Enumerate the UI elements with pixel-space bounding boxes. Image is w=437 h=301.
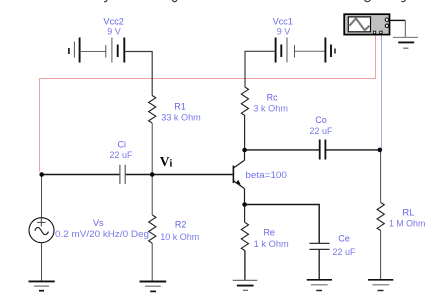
svg-text:22 uF: 22 uF [332,247,356,257]
ground (Ce) [307,280,332,291]
svg-text:RL: RL [402,208,414,218]
wire emitter row (emitter node - Ce) [245,205,320,244]
svg-text:beta=100: beta=100 [245,170,287,180]
resistor R2 10 kOhm [149,215,200,243]
resistor RL 1 MOhm [377,203,425,231]
svg-text:Ci: Ci [118,140,127,150]
wire Ce to ground [318,249,320,279]
capacitor Co 22 uF [309,115,333,160]
svg-text:Co: Co [315,115,327,125]
wire Rc to collector node [244,116,246,151]
svg-text:Ce: Ce [338,233,350,243]
cropped title text remnants (descenders at top edge) [104,0,406,2]
node dot: input node at Vs [39,172,44,177]
ground (R2) [140,282,167,292]
oscilloscope XSC1 [344,14,389,34]
wire input row (Vs node - Ci - node Vi - Q1 base) [42,174,234,176]
svg-text:22 uF: 22 uF [109,150,133,160]
node dot: output node [378,148,383,153]
svg-text:9 V: 9 V [107,27,121,37]
capacitor Ce 22 uF [310,233,357,257]
wire Re to ground [244,251,246,281]
svg-text:22 uF: 22 uF [309,126,333,136]
wire scope to ground [390,20,406,37]
wire R1 to node Vi [151,123,153,175]
svg-text:Rc: Rc [267,92,278,102]
svg-text:3 k Ohm: 3 k Ohm [253,103,288,113]
svg-text:10 k Ohm: 10 k Ohm [160,232,199,242]
node dot: emitter node [242,202,247,207]
wire output node to RL [380,150,382,203]
svg-text:Vcc1: Vcc1 [273,16,293,26]
node dot: node Vi [150,172,155,177]
svg-text:1 k Ohm: 1 k Ohm [254,239,289,249]
resistor R1 33 kOhm [149,96,201,124]
node dot: collector node [242,148,247,153]
resistor Re 1 kOhm [241,223,288,251]
ground (RL) [368,280,393,291]
capacitor Ci 22 uF [109,140,133,184]
battery V1 (Vcc1 9V) [273,16,335,62]
ground (scope) [393,37,418,48]
svg-text:R2: R2 [175,220,187,230]
battery V2 (Vcc2 9V) [69,16,124,62]
svg-text:9 V: 9 V [277,27,291,37]
wire battery V2 to R1 column [124,52,152,96]
svg-text:1 M Ohm: 1 M Ohm [389,218,426,228]
ground (Re) [233,280,258,290]
svg-text:Vs: Vs [93,218,104,228]
wire emitter node to Re [244,205,246,223]
wire scope channel B probe (blue) [381,35,383,150]
wire node Vi to R2 [151,175,153,216]
ground (Vs) [29,281,55,290]
svg-text:Re: Re [263,228,275,238]
transistor Q1 (NPN, beta=100) [233,150,287,205]
wire RL to ground [380,231,382,280]
wire collector row (collector node - Co - output node) [245,149,380,151]
svg-text:R1: R1 [174,101,186,111]
source Vs (0.2 mV / 20 kHz / 0 Deg) [29,175,149,282]
svg-text:0.2 mV/20 kHz/0 Deg: 0.2 mV/20 kHz/0 Deg [55,229,149,239]
svg-text:33 k Ohm: 33 k Ohm [161,113,201,123]
wire scope channel A probe (red) [40,35,376,172]
wire battery V1 to Rc column [245,51,276,87]
svg-text:Vcc2: Vcc2 [103,16,124,26]
wire R2 to ground [151,243,153,281]
resistor Rc 3 kOhm [241,87,288,116]
